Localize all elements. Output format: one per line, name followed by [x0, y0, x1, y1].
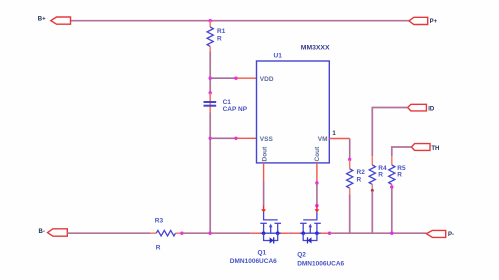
svg-text:U1: U1 [274, 53, 283, 60]
resistor R4 [369, 156, 387, 190]
wire Dout to Q1 gate [263, 182, 265, 207]
junction right of Q2 [328, 232, 331, 235]
port TH [411, 144, 439, 153]
wire VSS branch [210, 137, 236, 139]
port P+ [409, 17, 438, 25]
port ID [408, 104, 435, 112]
svg-text:B-: B- [39, 229, 45, 235]
wire R3 to center node [182, 232, 210, 234]
svg-text:R1: R1 [217, 28, 226, 35]
svg-text:DMN1006UCA6: DMN1006UCA6 [230, 258, 277, 265]
svg-text:VM: VM [318, 136, 328, 143]
junction VDD pin [234, 77, 237, 80]
svg-text:C1: C1 [223, 99, 232, 106]
wire Q2 to P- [330, 232, 427, 234]
pin Dout lead [263, 163, 265, 182]
junction below R5 [390, 185, 393, 188]
wire Cout to Q2 gate [316, 183, 318, 206]
pin Cout lead [316, 163, 318, 183]
junction VSS pin [234, 137, 237, 140]
junction R5 bottom [390, 232, 393, 235]
resistor R1 [207, 21, 226, 52]
pin VDD lead [236, 77, 257, 79]
junction above C1 [209, 91, 212, 94]
svg-text:Q1: Q1 [258, 250, 267, 257]
svg-text:1: 1 [332, 131, 336, 137]
svg-text:R: R [357, 177, 362, 184]
wire B- to R3 [67, 232, 150, 234]
wire VM to R2 [349, 139, 351, 160]
junction below R4 [371, 189, 374, 192]
junction VDD branch [209, 77, 212, 80]
svg-text:P+: P+ [430, 19, 438, 25]
svg-text:R: R [156, 245, 161, 252]
wire Q1 to Q2 [290, 232, 293, 234]
svg-text:Dout: Dout [261, 146, 268, 162]
wire C1 to VSS node [209, 113, 211, 234]
pin Q1 right lead [281, 232, 290, 234]
pin Q2 right lead [321, 232, 330, 234]
op-amp U1 body [257, 44, 330, 163]
resistor R5 [389, 156, 406, 187]
pin VM lead [329, 138, 349, 140]
port B+ [38, 17, 71, 25]
svg-text:R: R [378, 171, 383, 178]
wire R5 to bottom bus [391, 187, 393, 233]
resistor R3 [150, 218, 182, 252]
transistor Q2 [297, 206, 344, 268]
svg-text:DMN1006UCA6: DMN1006UCA6 [297, 260, 344, 267]
port B- [39, 229, 68, 236]
svg-text:ID: ID [428, 107, 435, 113]
svg-text:B+: B+ [38, 17, 46, 23]
capacitor C1 [204, 93, 248, 113]
wire R1 to VDD/C1 node [209, 52, 211, 93]
junction on Cout wire [315, 181, 318, 184]
wire VDD branch [210, 77, 236, 79]
pin Q1 left lead [251, 232, 260, 234]
junction at Q2 gate [315, 204, 318, 207]
junction after R3 [180, 232, 183, 235]
junction VSS branch [209, 137, 212, 140]
svg-text:MM3XXX: MM3XXX [301, 44, 330, 51]
junction bottom bus center [209, 232, 212, 235]
transistor Q1 [230, 206, 281, 265]
resistor R2 [347, 160, 366, 195]
svg-text:Cout: Cout [314, 146, 321, 162]
pin Q2 left lead [292, 232, 300, 234]
pin VSS lead [236, 137, 257, 139]
wire top bus B+ to P+ [71, 20, 410, 22]
wire center node to Q1 [210, 232, 251, 234]
svg-text:CAP NP: CAP NP [223, 106, 248, 113]
svg-text:Q2: Q2 [297, 252, 306, 259]
junction above R2 [348, 158, 351, 161]
svg-text:VSS: VSS [260, 136, 274, 143]
svg-text:R3: R3 [155, 218, 164, 225]
svg-text:VDD: VDD [260, 76, 274, 83]
svg-text:R: R [397, 171, 402, 178]
wire R2 to bottom bus [349, 195, 351, 234]
svg-text:TH: TH [431, 146, 439, 152]
wire ID to R4 [372, 108, 407, 157]
port P- [426, 230, 454, 238]
svg-text:R2: R2 [357, 169, 366, 176]
wire R4 to bottom bus [371, 191, 373, 234]
svg-text:R: R [217, 36, 222, 43]
wire TH to R5 [392, 147, 412, 156]
svg-text:P-: P- [448, 232, 454, 238]
junction on top bus at R1 [209, 19, 212, 22]
